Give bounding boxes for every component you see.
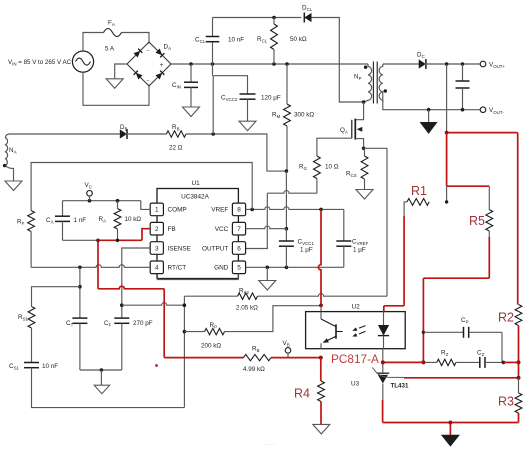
svg-text:1 µF: 1 µF xyxy=(353,247,366,254)
capacitor CVCC1 xyxy=(285,229,287,241)
wire CVCC2 to ground xyxy=(247,99,249,121)
node rail-RM xyxy=(285,62,289,66)
wire VREF-collector red xyxy=(318,209,321,305)
node VOUT- gnd xyxy=(427,108,431,112)
resistor R5 xyxy=(486,210,493,231)
node CP tap xyxy=(422,331,425,334)
svg-text:6: 6 xyxy=(237,245,241,252)
node CT tap xyxy=(78,266,82,270)
resistor RB xyxy=(244,354,272,360)
terminal VOUT+ xyxy=(480,61,486,67)
wire AC top to fuse and bridge xyxy=(83,33,104,52)
capacitor CCL xyxy=(206,36,220,38)
svg-text:UC3842A: UC3842A xyxy=(181,193,209,200)
wire CF to ground rail xyxy=(121,323,123,370)
wire R4 top red xyxy=(320,358,322,381)
node outcap top xyxy=(461,62,465,66)
svg-text:2.05 kΩ: 2.05 kΩ xyxy=(236,305,258,312)
ground (U1 GND) xyxy=(259,281,276,291)
wire gate to RG xyxy=(317,138,352,156)
node rail-CCL xyxy=(211,62,215,66)
resistor RS2 xyxy=(238,293,258,299)
capacitor CVCC2 xyxy=(240,93,256,95)
wire VOUT- rail xyxy=(383,91,480,110)
capacitor CIN xyxy=(190,64,192,82)
wire DB to RB22 xyxy=(125,133,166,135)
ground (output, filled) xyxy=(421,123,437,134)
wire RTCT-GND U strap xyxy=(158,274,239,280)
stray red dot xyxy=(155,364,158,367)
svg-text:4.99 kΩ: 4.99 kΩ xyxy=(243,366,265,373)
svg-text:5: 5 xyxy=(237,265,241,272)
opto phototransistor xyxy=(320,312,322,319)
ground (secondary, filled) xyxy=(442,435,459,446)
wire out-sense red top xyxy=(447,132,518,134)
svg-text:VIN = 85 V to 265 V AC: VIN = 85 V to 265 V AC xyxy=(8,59,72,67)
wire R5 top lead xyxy=(488,186,490,209)
node outcap bottom xyxy=(461,108,465,112)
wire DCL to drain node xyxy=(312,18,364,103)
wire R1 left to LED anode red xyxy=(404,202,407,217)
pin 6 box xyxy=(232,242,245,255)
pin 3 box xyxy=(150,242,163,255)
wire R5 bottom red xyxy=(488,231,490,238)
wire VCC pin7 xyxy=(246,226,287,229)
capacitor CT xyxy=(72,317,87,319)
svg-text:5 A: 5 A xyxy=(105,46,115,53)
ground (CIN) xyxy=(183,107,200,117)
svg-text:300 kΩ: 300 kΩ xyxy=(294,112,314,119)
svg-text:OUTPUT: OUTPUT xyxy=(202,245,228,252)
wire CT to ground rail xyxy=(79,323,81,370)
fuse FA xyxy=(104,29,122,37)
wire RP to VREF-opto line xyxy=(225,306,322,332)
resistor RM xyxy=(284,104,291,126)
node rail-RCL xyxy=(272,62,276,66)
transformer core xyxy=(372,62,374,104)
diode DCL xyxy=(304,13,311,22)
node NA polarity dot xyxy=(3,164,6,167)
pin 8 box xyxy=(232,203,245,216)
wire RB to opto emitter red xyxy=(271,357,321,359)
pin 7 box xyxy=(232,222,245,235)
wire VCC riser xyxy=(285,171,287,229)
ground (NA) xyxy=(5,181,22,191)
node bottom-gnd junction red xyxy=(448,421,452,425)
node Rz feed red xyxy=(421,360,425,364)
wire TL431 ref red xyxy=(383,361,424,363)
wire R3 top xyxy=(518,378,520,393)
wire GND rail xyxy=(246,266,344,268)
node NP polarity dot xyxy=(364,66,367,69)
svg-text:50 kΩ: 50 kΩ xyxy=(290,36,307,43)
node RS1 tap xyxy=(78,285,82,289)
svg-text:2: 2 xyxy=(155,226,159,233)
node R2-CZ junction red xyxy=(517,360,521,364)
wire CCL branch xyxy=(212,42,214,64)
node RA top xyxy=(116,199,120,203)
svg-text:U3: U3 xyxy=(351,381,360,388)
resistor RG xyxy=(314,156,321,179)
svg-text:U2: U2 xyxy=(352,304,361,311)
svg-text:FB: FB xyxy=(168,226,176,233)
wire gnd rail CT-CF xyxy=(80,369,122,371)
wire CS1 to bottom rail xyxy=(32,368,185,408)
wire RP left xyxy=(184,331,204,333)
node RP tap xyxy=(183,330,187,334)
node TL431 cathode red xyxy=(381,360,385,364)
transistor QA mosfet xyxy=(355,102,363,120)
wire VREF pin8 xyxy=(246,207,344,210)
capacitor CVREF xyxy=(336,240,351,242)
resistor RB 22 xyxy=(166,131,186,137)
svg-text:R4: R4 xyxy=(294,387,310,401)
resistor R1 xyxy=(407,199,429,206)
wire R4 bottom red xyxy=(320,402,322,425)
resistor RZ xyxy=(437,359,456,365)
wire output sense drop xyxy=(446,64,448,133)
svg-text:120 µF: 120 µF xyxy=(261,95,281,102)
wire R5 to Rz feed red xyxy=(423,277,489,279)
resistor RCS xyxy=(364,148,366,156)
svg-text:VCC: VCC xyxy=(215,226,229,233)
diode DC xyxy=(419,59,426,68)
node CVCC1 bottom xyxy=(285,266,289,270)
capacitor CA xyxy=(62,201,64,217)
svg-text:10 Ω: 10 Ω xyxy=(325,164,339,171)
bridge diode top-right xyxy=(155,48,164,57)
node RB22-CCL branch xyxy=(211,132,215,136)
wire RS2 left xyxy=(184,295,237,297)
winding secondary xyxy=(379,64,383,102)
terminal VC xyxy=(87,191,93,197)
pin 4 box xyxy=(150,261,163,274)
wire comp top rail xyxy=(63,200,141,202)
wire RTCT horizontal xyxy=(31,265,150,268)
winding NA xyxy=(6,134,11,166)
svg-text:PC817-A: PC817-A xyxy=(331,352,379,366)
svg-text:3: 3 xyxy=(155,245,159,252)
svg-text:22 Ω: 22 Ω xyxy=(169,145,183,152)
pin 2 box xyxy=(150,222,163,235)
node drain xyxy=(362,100,366,104)
wire R2 bottom red xyxy=(518,326,520,378)
wire LED cathode to TL431 xyxy=(382,349,384,373)
opto LED xyxy=(383,312,385,325)
output capacitor xyxy=(462,64,464,81)
node R1 right xyxy=(445,200,448,203)
wire NA to ground xyxy=(6,166,14,182)
svg-text:R5: R5 xyxy=(469,214,485,228)
svg-text:R3: R3 xyxy=(498,395,514,409)
wire ref rail red xyxy=(404,377,519,379)
wire secondary to DC xyxy=(383,63,419,65)
node source xyxy=(362,147,366,151)
node CZ junction xyxy=(502,361,506,365)
ground (CVCC2) xyxy=(239,121,256,131)
ground (CT/CF) xyxy=(94,385,110,394)
capacitor CF xyxy=(114,317,129,319)
node RA bottom xyxy=(116,239,120,243)
node ref-R3 junction red xyxy=(517,376,521,380)
svg-text:COMP: COMP xyxy=(168,207,187,214)
wire VREF loop to RF xyxy=(31,163,252,211)
svg-text:−: − xyxy=(146,48,149,54)
wire R1 feed red xyxy=(446,133,448,187)
ground (RCS) xyxy=(356,190,373,200)
winding NP primary xyxy=(364,64,372,102)
terminal VOUT- xyxy=(480,107,486,113)
vertical net RS2-RP xyxy=(183,296,185,407)
transistor U3 TL431 xyxy=(377,372,390,374)
wire FB red path xyxy=(142,229,150,241)
wire R3 bottom red xyxy=(518,413,520,423)
svg-text:R2: R2 xyxy=(498,311,514,325)
node gnd-sym tap xyxy=(266,266,270,270)
AC source VIN xyxy=(72,51,93,72)
wire gnd stem red xyxy=(449,423,451,436)
wire comp bottom rail xyxy=(63,239,99,241)
wire VC stem xyxy=(89,196,91,201)
wire CP right xyxy=(469,331,502,333)
bridge diode bottom-left xyxy=(134,71,143,80)
wire clamp top rail xyxy=(213,17,302,19)
bridge AC ground wire xyxy=(115,64,127,79)
svg-text:U1: U1 xyxy=(192,180,201,187)
resistor R3 xyxy=(515,393,522,413)
wire DC to VOUT+ xyxy=(424,63,480,65)
capacitor CP xyxy=(463,327,465,338)
wire CZ to R2 red xyxy=(504,361,519,363)
wire collector stub xyxy=(320,305,322,311)
svg-text:1 nF: 1 nF xyxy=(74,217,87,224)
wire VB stem xyxy=(287,353,289,357)
op-amp U2 PC817 box xyxy=(306,312,406,349)
opto light arrows xyxy=(359,326,366,329)
wire CCL-column down xyxy=(212,64,214,76)
capacitor CS1 xyxy=(24,362,39,364)
bridge diode top-left xyxy=(133,49,142,58)
svg-text:VREF: VREF xyxy=(211,207,228,214)
wire TL431 anode red xyxy=(382,383,384,401)
wire RM leads xyxy=(286,64,288,104)
bridge rectifier DA diamond xyxy=(127,42,171,86)
svg-text:GND: GND xyxy=(214,265,229,272)
resistor R4 xyxy=(318,381,325,402)
node RP-collector xyxy=(319,304,323,308)
wire sense down to RS2 xyxy=(386,148,388,296)
wire ISENSE to CF xyxy=(122,248,150,318)
resistor RP xyxy=(205,328,225,334)
wire CZ right xyxy=(485,361,504,363)
pin 5 box xyxy=(232,261,245,274)
node CF link xyxy=(120,303,124,307)
wire gnd symbol stem xyxy=(266,267,268,280)
svg-text:4: 4 xyxy=(155,265,159,272)
resistor RS1 xyxy=(28,307,35,329)
svg-text:7: 7 xyxy=(237,226,241,233)
svg-text:RT/CT: RT/CT xyxy=(168,265,187,272)
wire CT column xyxy=(79,267,81,318)
wire source sense xyxy=(364,147,387,149)
resistor R2 xyxy=(515,305,522,326)
node out-sense corner xyxy=(445,131,449,135)
node top rail-RCL xyxy=(272,16,276,20)
node y305 link xyxy=(183,303,187,307)
wire to RS1 xyxy=(32,287,80,307)
wire R1 right lead xyxy=(446,186,448,202)
ground (R4) xyxy=(313,424,330,434)
wire RG to OUTPUT pin xyxy=(316,179,318,194)
node VC stem xyxy=(88,199,92,203)
wire CP left xyxy=(423,331,463,333)
wire NA to DB xyxy=(10,133,120,135)
resistor RA xyxy=(117,201,119,209)
svg-text:ISENSE: ISENSE xyxy=(168,245,191,252)
node vref-opto xyxy=(319,208,323,212)
wire CVCC2 branch xyxy=(213,76,247,94)
wire RS1 to CS1 xyxy=(31,328,33,363)
svg-text:−: − xyxy=(146,78,149,84)
node VCC pin7 junction xyxy=(285,227,289,231)
svg-text:TL431: TL431 xyxy=(391,383,409,390)
svg-text:···· ···: ···· ··· xyxy=(264,442,277,448)
svg-text:R1: R1 xyxy=(411,184,427,198)
node RM-VCC junction xyxy=(285,169,289,173)
op-amp U1 UC3842A body xyxy=(157,189,238,279)
wire RZ to CZ xyxy=(456,361,480,363)
wire Rz-Cz row xyxy=(423,361,436,363)
node vref-riser xyxy=(250,208,254,212)
node FB-CA junction xyxy=(96,239,100,243)
wire RF to RTCT line xyxy=(30,232,32,268)
capacitor CZ xyxy=(479,357,481,368)
wire CF-RS2 link xyxy=(122,303,185,306)
resistor RCL xyxy=(273,18,275,25)
wire RB22 to VCC node xyxy=(186,134,286,171)
svg-text:1 µF: 1 µF xyxy=(300,247,313,254)
wire bottom red rail xyxy=(383,422,519,424)
terminal VB xyxy=(285,348,291,354)
wire rectified HV rail xyxy=(171,63,368,65)
bridge diode bottom-right xyxy=(155,71,164,80)
wire COMP to comp network xyxy=(141,201,150,210)
svg-text:+: + xyxy=(160,63,164,69)
pin 1 box xyxy=(150,203,163,216)
diode DB xyxy=(120,129,127,138)
svg-text:270 pF: 270 pF xyxy=(133,320,153,327)
svg-text:10 kΩ: 10 kΩ xyxy=(125,216,142,223)
node after DC xyxy=(445,62,449,66)
svg-text:1: 1 xyxy=(155,207,159,214)
node opto emitter-R4 xyxy=(319,356,323,360)
wire to output ground xyxy=(428,110,430,123)
node secondary polarity dot xyxy=(384,89,387,92)
node rail-CIN xyxy=(189,62,193,66)
resistor RF xyxy=(28,211,35,232)
svg-text:200 kΩ: 200 kΩ xyxy=(201,343,221,350)
ground (bridge) xyxy=(106,79,123,89)
wire AC bottom to bridge xyxy=(83,72,149,105)
svg-text:10 nF: 10 nF xyxy=(42,363,58,370)
svg-text:10 nF: 10 nF xyxy=(228,37,244,44)
svg-text:8: 8 xyxy=(237,207,241,214)
